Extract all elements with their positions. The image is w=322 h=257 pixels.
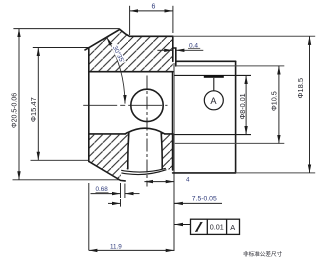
dimension 11.9	[89, 183, 175, 250]
Phi8 bore lines	[175, 75, 252, 134]
0.4 step face	[173, 48, 176, 66]
bottom chamfer	[89, 161, 125, 181]
datum A symbol	[204, 75, 224, 78]
svg-text:Φ18.5: Φ18.5	[296, 78, 305, 99]
block right face	[172, 134, 174, 170]
dimension 7.5-0.05	[108, 199, 222, 207]
svg-text:0.01: 0.01	[210, 223, 224, 232]
svg-text:Φ10.5: Φ10.5	[269, 91, 278, 111]
top flat ext to Phi18.5	[173, 35, 315, 37]
cylinder right face	[235, 61, 237, 173]
groove left wall	[128, 133, 129, 169]
dimension phi18.5	[309, 36, 311, 173]
internal bore end face	[171, 72, 173, 134]
svg-text:6: 6	[152, 4, 156, 11]
dimension phi15.47	[31, 48, 89, 161]
lower block hatch left	[89, 133, 129, 181]
flange section hatch	[89, 29, 173, 71]
svg-text:4: 4	[186, 177, 190, 184]
block top line right	[165, 133, 173, 135]
svg-text:A: A	[230, 223, 235, 232]
angle leader 30°35'	[107, 37, 125, 103]
horizontal centerline	[83, 104, 167, 106]
groove bottom arc lower	[121, 170, 166, 175]
svg-text:7.5-0.05: 7.5-0.05	[192, 196, 217, 203]
block top line left	[89, 133, 125, 135]
svg-text:11.9: 11.9	[110, 243, 122, 250]
cylinder bottom edge	[173, 172, 236, 174]
dimension 6	[130, 6, 173, 35]
ext line from flange right face down	[173, 63, 175, 251]
Phi10.5 bore lines	[173, 36, 315, 173]
dimension 0.4	[157, 49, 203, 51]
cross hole circle	[131, 89, 163, 121]
lower block hatch right	[161, 133, 172, 170]
cylinder top edge	[176, 60, 236, 62]
dimension phi8-0.01	[245, 75, 247, 134]
svg-text:Φ8-0.01: Φ8-0.01	[238, 93, 247, 119]
feature control frame	[174, 219, 239, 234]
top flat	[130, 35, 173, 37]
flange bore top line (hatch bottom)	[89, 71, 173, 73]
flange right face	[172, 36, 174, 61]
cylinder bottom ext to Phi18.5	[236, 172, 316, 174]
groove bottom arc upper	[121, 168, 166, 172]
dimension phi20.5-0.06	[13, 29, 121, 180]
left face	[88, 48, 90, 162]
svg-text:Φ20.5-0.06: Φ20.5-0.06	[12, 93, 19, 128]
slope symbol	[196, 223, 201, 232]
dimension 0.68	[91, 183, 140, 198]
groove hump arc	[125, 128, 165, 134]
svg-text:A: A	[210, 96, 217, 106]
vertical centerline	[146, 76, 148, 187]
groove right wall	[161, 133, 162, 169]
dimension phi10.5	[278, 66, 280, 143]
svg-text:Φ15.47: Φ15.47	[29, 97, 38, 122]
svg-text:非标准公差尺寸: 非标准公差尺寸	[243, 250, 283, 257]
part outline: top chamfer	[85, 29, 236, 181]
dimension 4	[144, 181, 174, 183]
